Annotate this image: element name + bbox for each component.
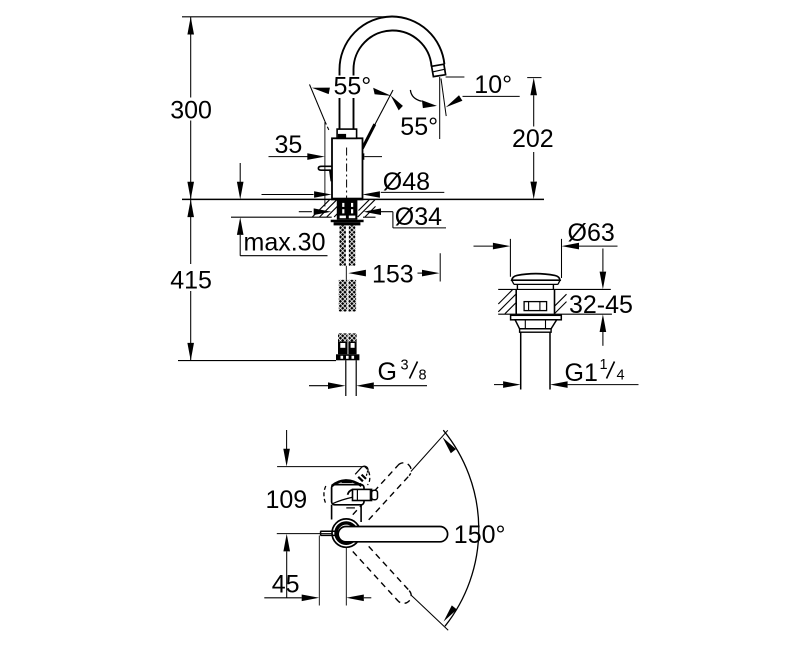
svg-text:Ø63: Ø63	[568, 219, 615, 247]
svg-text:35: 35	[275, 131, 303, 159]
svg-text:G: G	[378, 358, 397, 386]
svg-text:3: 3	[401, 357, 409, 373]
svg-text:Ø34: Ø34	[395, 203, 442, 231]
svg-text:202: 202	[512, 125, 554, 153]
svg-text:10°: 10°	[474, 71, 512, 99]
svg-text:150°: 150°	[454, 521, 506, 549]
svg-text:300: 300	[170, 96, 212, 124]
svg-text:415: 415	[170, 266, 212, 294]
svg-text:55°: 55°	[334, 73, 372, 101]
svg-text:G1: G1	[565, 359, 598, 387]
svg-text:max.30: max.30	[244, 228, 326, 256]
svg-text:45: 45	[272, 571, 300, 599]
svg-text:109: 109	[266, 486, 308, 514]
svg-text:55°: 55°	[400, 113, 438, 141]
svg-text:153: 153	[372, 261, 414, 289]
svg-text:Ø48: Ø48	[383, 168, 430, 196]
svg-text:1: 1	[600, 357, 608, 373]
svg-text:8: 8	[419, 368, 427, 384]
svg-text:4: 4	[617, 368, 625, 384]
svg-text:32-45: 32-45	[569, 291, 633, 319]
